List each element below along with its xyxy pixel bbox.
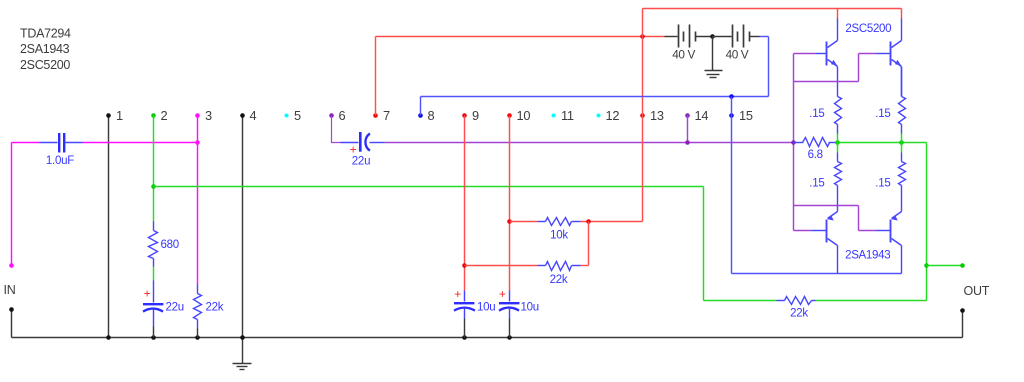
pin 10: [507, 113, 512, 118]
transistor Q3 2SA1943 PNP: [837, 186, 839, 212]
svg-text:.15: .15: [875, 177, 890, 189]
node: OUT green endpoint: [960, 263, 965, 268]
wire red: top rail to collectors: [643, 8, 902, 10]
pin 13: [640, 113, 645, 118]
wire green: to 22k bottom: [704, 300, 777, 302]
node: OUT terminal: [960, 308, 965, 313]
wire green: 680 to C 22u: [153, 267, 155, 281]
pin 12: [597, 114, 601, 118]
svg-text:IN: IN: [4, 283, 16, 297]
svg-text:.15: .15: [875, 108, 890, 120]
svg-text:12: 12: [606, 108, 620, 123]
wire red: pin10 down: [509, 116, 511, 291]
svg-text:6: 6: [339, 108, 346, 123]
ground symbol battery: [712, 37, 714, 71]
node: rail-down junction: [924, 263, 929, 268]
svg-text:6.8: 6.8: [808, 149, 823, 161]
wire magenta: input vertical: [11, 143, 13, 266]
battery B1 40V: [665, 36, 678, 38]
resistor R 10k: [510, 221, 538, 223]
transistor Q4 2SA1943 PNP: [901, 186, 903, 212]
svg-text:22k: 22k: [790, 307, 808, 319]
node: battery midpoint: [710, 34, 715, 39]
wire red: pin9 down: [464, 116, 466, 291]
svg-text:+: +: [350, 143, 357, 157]
svg-text:8: 8: [428, 108, 435, 123]
wire purple: pin14 stub: [687, 116, 689, 143]
svg-text:+: +: [144, 287, 151, 301]
wire red: junction down: [588, 222, 590, 266]
svg-text:22u: 22u: [166, 302, 184, 314]
wire red: pin7 up to +40V: [375, 37, 377, 116]
capacitor C1 1.0uF: [40, 142, 58, 144]
node: rail junction right: [899, 140, 904, 145]
svg-text:15: 15: [739, 108, 753, 123]
pin 11: [552, 114, 556, 118]
resistor R 22k mid: [465, 265, 538, 267]
wire blue: battery to -40 rail: [760, 36, 769, 38]
resistor R 680: [149, 231, 158, 259]
svg-text:14: 14: [695, 108, 709, 123]
svg-text:1.0uF: 1.0uF: [46, 155, 74, 167]
svg-text:10k: 10k: [550, 229, 568, 241]
wire green: OUT stub: [927, 265, 963, 267]
svg-text:680: 680: [161, 239, 179, 251]
svg-text:22k: 22k: [550, 274, 568, 286]
wire: Q3 base lead: [794, 230, 812, 232]
wire red: pin13 vertical: [642, 9, 644, 222]
capacitor C 22u electrolytic: [153, 281, 155, 303]
node: bootstrap junction: [586, 219, 591, 224]
battery B2 40V: [713, 36, 732, 38]
resistor R .15 lower left: [837, 143, 839, 153]
pin 6: [329, 113, 334, 118]
svg-text:10u: 10u: [477, 302, 495, 314]
resistor R .15 upper right: [901, 67, 903, 97]
svg-text:40 V: 40 V: [672, 48, 695, 62]
svg-text:7: 7: [383, 108, 390, 123]
wire purple: pin6 to C2: [332, 116, 341, 143]
node: pin10 junction 10k: [507, 219, 512, 224]
wire: ground bus: [12, 337, 963, 339]
resistor R .15 lower right: [901, 143, 903, 153]
svg-text:22u: 22u: [352, 156, 370, 168]
capacitor C 10u second: [509, 291, 511, 302]
pin 1: [106, 113, 111, 118]
svg-text:10: 10: [517, 108, 531, 123]
svg-text:.15: .15: [809, 108, 824, 120]
wire magenta: pin3 vertical: [197, 116, 199, 285]
transistor Q1 2SC5200 NPN: [837, 19, 839, 41]
node: input magenta endpoint: [9, 263, 14, 268]
wire green: feedback horizontal: [154, 186, 704, 188]
svg-text:4: 4: [250, 108, 257, 123]
wire: pin4 to bus: [242, 116, 244, 338]
wire purple: Q2 base network: [794, 81, 859, 83]
resistor R .15 upper left: [837, 96, 839, 98]
node: junction green feedback: [151, 184, 156, 189]
wire blue: pin8 up: [420, 97, 422, 116]
svg-text:13: 13: [650, 108, 664, 123]
wire magenta: to cap C1: [12, 142, 40, 144]
wire: Q1 base lead: [794, 53, 816, 55]
wire purple: main horizontal to output stage: [385, 142, 794, 144]
resistor R 22k feedback: [777, 300, 785, 302]
svg-text:3: 3: [205, 108, 212, 123]
wire green: pin2 vertical: [153, 116, 155, 222]
wire blue: PNP collector bus: [732, 273, 902, 275]
wire green: 22k to output rail: [816, 300, 927, 302]
wire: pin1 to bus: [108, 116, 110, 338]
pin 9: [462, 113, 467, 118]
resistor R 6.8: [794, 142, 804, 144]
transistor Q2 2SC5200 NPN: [901, 19, 903, 41]
ground symbol at bus: [242, 338, 244, 364]
svg-text:2SA1943: 2SA1943: [20, 42, 70, 56]
svg-text:1: 1: [116, 108, 123, 123]
capacitor C 10u first: [464, 291, 466, 302]
node: +40 junction: [640, 34, 645, 39]
pin 7: [373, 113, 378, 118]
wire: IN drop to bus: [11, 310, 13, 338]
pin 15: [729, 113, 734, 118]
svg-text:10u: 10u: [521, 302, 539, 314]
resistor R 22k vertical: [197, 285, 199, 294]
svg-text:+: +: [454, 287, 461, 301]
wire blue: pin15 vertical: [731, 97, 733, 274]
svg-text:OUT: OUT: [964, 284, 990, 298]
node: pin14 junction: [685, 140, 690, 145]
wire green: feedback down: [703, 187, 705, 301]
node: IN terminal: [9, 307, 14, 312]
svg-text:2: 2: [161, 108, 168, 123]
svg-text:22k: 22k: [206, 302, 224, 314]
svg-text:40 V: 40 V: [726, 48, 749, 62]
wire red: 10k to pin13 line: [581, 221, 643, 223]
wire: OUT drop to bus: [962, 311, 964, 338]
capacitor C2 22u input polarized: [341, 142, 359, 144]
wire purple: base vertical main: [793, 54, 795, 231]
node: junction on pin3 line: [195, 140, 200, 145]
wire blue: -40 horizontal: [421, 96, 769, 98]
svg-text:2SC5200: 2SC5200: [845, 23, 891, 35]
svg-text:2SA1943: 2SA1943: [845, 250, 890, 262]
node: rail junction left: [835, 140, 840, 145]
svg-text:5: 5: [294, 108, 301, 123]
svg-text:2SC5200: 2SC5200: [20, 58, 70, 72]
node: pin15 junction on -40: [729, 94, 734, 99]
junction dots on bus: [106, 335, 111, 340]
pin 3: [195, 113, 200, 118]
pin 8: [418, 113, 423, 118]
wire purple: Q4 base network: [794, 205, 859, 207]
svg-text:11: 11: [561, 108, 574, 123]
svg-text:+: +: [499, 287, 506, 301]
pin 4: [240, 113, 245, 118]
svg-text:.15: .15: [809, 177, 824, 189]
wire green: output rail: [838, 142, 927, 144]
svg-text:TDA7294: TDA7294: [20, 27, 71, 41]
node: purple junction on rail: [791, 140, 796, 145]
wire magenta: cap C1 to pin3 net: [83, 142, 198, 144]
svg-text:9: 9: [472, 108, 479, 123]
pin 14: [685, 113, 690, 118]
node: pin9 junction 22k: [462, 263, 467, 268]
pin 5: [285, 114, 289, 118]
pin 2: [151, 113, 156, 118]
